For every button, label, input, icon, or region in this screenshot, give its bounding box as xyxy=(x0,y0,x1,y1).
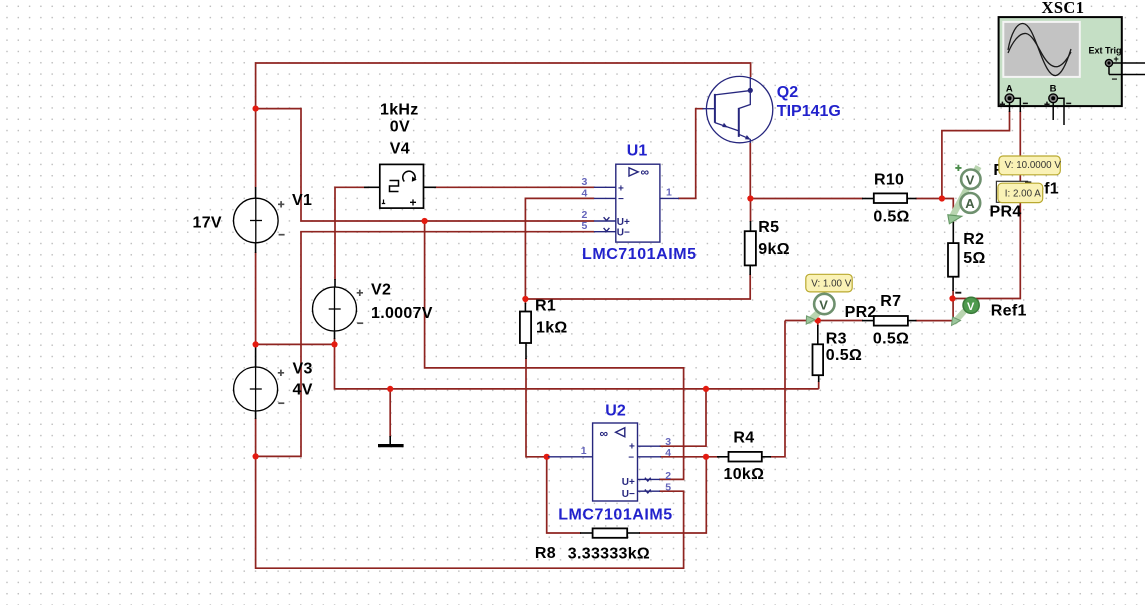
svg-text:LMC7101AIM5: LMC7101AIM5 xyxy=(582,246,697,263)
svg-text:R4: R4 xyxy=(733,429,754,446)
svg-text:V1: V1 xyxy=(292,192,312,209)
svg-text:R5: R5 xyxy=(758,219,779,236)
svg-text:V: 1.00 V: V: 1.00 V xyxy=(811,278,851,289)
svg-text:XSC1: XSC1 xyxy=(1042,0,1085,17)
svg-text:∞: ∞ xyxy=(600,427,609,441)
svg-text:4V: 4V xyxy=(293,382,313,399)
svg-text:9kΩ: 9kΩ xyxy=(758,241,790,258)
svg-text:Ref1: Ref1 xyxy=(991,303,1027,320)
svg-text:A: A xyxy=(1006,83,1013,94)
svg-text:−: − xyxy=(628,452,634,463)
svg-text:2: 2 xyxy=(665,470,671,482)
svg-text:R2: R2 xyxy=(963,231,984,248)
svg-text:4: 4 xyxy=(582,188,588,200)
svg-text:5: 5 xyxy=(582,220,588,232)
svg-text:B: B xyxy=(1050,83,1057,94)
svg-text:U1: U1 xyxy=(627,143,648,160)
svg-text:+: + xyxy=(618,183,624,194)
svg-text:V4: V4 xyxy=(390,140,410,157)
svg-text:R8: R8 xyxy=(535,545,556,562)
svg-text:U+: U+ xyxy=(617,217,630,228)
svg-text:U−: U− xyxy=(622,489,635,500)
svg-text:A: A xyxy=(965,196,975,211)
svg-text:R3: R3 xyxy=(826,331,847,348)
svg-text:10kΩ: 10kΩ xyxy=(724,466,765,483)
svg-text:1kΩ: 1kΩ xyxy=(536,319,568,336)
svg-text:5: 5 xyxy=(665,482,671,494)
svg-text:+: + xyxy=(629,442,635,453)
svg-text:0.5Ω: 0.5Ω xyxy=(873,209,909,226)
svg-text:1kHz: 1kHz xyxy=(380,101,419,118)
svg-text:+: + xyxy=(1114,54,1119,64)
svg-text:U+: U+ xyxy=(622,477,635,488)
svg-text:V: 10.0000 V: V: 10.0000 V xyxy=(1005,160,1062,171)
svg-text:V: V xyxy=(967,301,975,313)
svg-text:−: − xyxy=(618,194,624,205)
svg-text:0.5Ω: 0.5Ω xyxy=(826,347,862,364)
svg-text:U2: U2 xyxy=(605,403,626,420)
svg-text:I: 2.00 A: I: 2.00 A xyxy=(1005,188,1041,199)
svg-text:V: V xyxy=(819,297,828,312)
svg-text:R10: R10 xyxy=(874,171,904,188)
svg-text:TIP141G: TIP141G xyxy=(777,103,841,120)
svg-text:2: 2 xyxy=(582,209,588,221)
svg-text:5Ω: 5Ω xyxy=(963,250,985,267)
svg-text:R1: R1 xyxy=(535,298,556,315)
svg-text:Q2: Q2 xyxy=(777,84,798,101)
svg-text:17V: 17V xyxy=(193,215,222,232)
svg-text:V2: V2 xyxy=(371,282,391,299)
svg-text:V3: V3 xyxy=(293,361,313,378)
svg-text:4: 4 xyxy=(665,447,671,459)
svg-text:1: 1 xyxy=(666,187,672,199)
svg-text:U−: U− xyxy=(617,228,630,239)
svg-text:V: V xyxy=(966,173,975,188)
svg-text:1.0007V: 1.0007V xyxy=(371,305,433,322)
svg-text:R7: R7 xyxy=(880,293,901,310)
svg-text:3: 3 xyxy=(665,436,671,448)
svg-text:0V: 0V xyxy=(390,119,410,136)
svg-text:0.5Ω: 0.5Ω xyxy=(873,331,909,348)
svg-text:LMC7101AIM5: LMC7101AIM5 xyxy=(558,507,673,524)
svg-text:3.33333kΩ: 3.33333kΩ xyxy=(568,546,650,563)
svg-text:−: − xyxy=(1112,75,1118,86)
svg-text:3: 3 xyxy=(582,176,588,188)
svg-text:∞: ∞ xyxy=(641,165,650,179)
svg-text:PR4: PR4 xyxy=(990,204,1022,221)
svg-text:+: + xyxy=(410,196,417,210)
svg-text:PR2: PR2 xyxy=(845,304,877,321)
svg-text:1: 1 xyxy=(581,445,587,457)
